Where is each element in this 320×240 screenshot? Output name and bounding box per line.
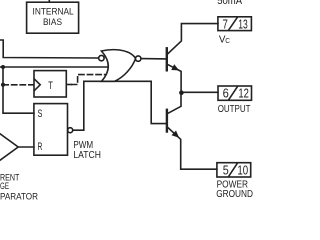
svg-text:OUTPUT: OUTPUT xyxy=(218,104,251,115)
svg-text:R: R xyxy=(38,141,43,153)
svg-text:LATCH: LATCH xyxy=(73,150,101,161)
svg-text:PARATOR: PARATOR xyxy=(0,192,38,202)
svg-text:C: C xyxy=(225,36,230,45)
svg-text:13: 13 xyxy=(238,17,248,32)
svg-text:7: 7 xyxy=(223,17,228,32)
svg-text:12: 12 xyxy=(238,86,249,101)
svg-text:6: 6 xyxy=(223,86,229,101)
svg-text:50mA: 50mA xyxy=(217,0,242,7)
svg-text:GROUND: GROUND xyxy=(216,189,253,200)
svg-text:S: S xyxy=(38,108,43,120)
svg-text:BIAS: BIAS xyxy=(43,17,62,27)
svg-text:5: 5 xyxy=(223,163,229,178)
svg-text:T: T xyxy=(48,80,53,92)
svg-text:INTERNAL: INTERNAL xyxy=(33,7,74,17)
svg-text:10: 10 xyxy=(237,163,248,178)
svg-text:GE: GE xyxy=(0,181,9,191)
